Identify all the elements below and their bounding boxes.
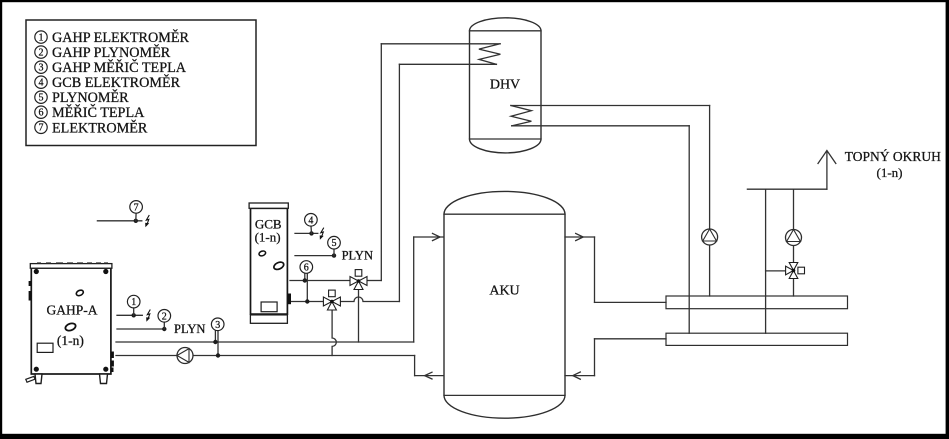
wire DHV lower coil supply <box>511 105 710 107</box>
svg-text:MĚŘIČ TEPLA: MĚŘIČ TEPLA <box>52 104 145 121</box>
meter marker 4 <box>295 214 318 236</box>
svg-text:PLYN: PLYN <box>174 322 205 336</box>
wire GCB supply valve to riser <box>367 280 381 282</box>
valve V2 three-way <box>323 290 340 310</box>
wire GCB return riser <box>398 64 400 301</box>
legend box <box>26 20 256 146</box>
wire heating supply riser <box>793 189 795 296</box>
wire DHV return drop <box>688 126 690 333</box>
svg-text:7: 7 <box>39 123 44 134</box>
legend item 2 GAHP PLYNOMER <box>35 44 171 61</box>
wire header 1 stub <box>595 301 667 303</box>
wire GCB supply horizontal <box>290 280 350 282</box>
svg-text:GAHP ELEKTROMĚR: GAHP ELEKTROMĚR <box>52 29 190 46</box>
svg-text:6: 6 <box>304 263 309 274</box>
header manifold 2 <box>666 333 848 345</box>
wire GCB supply riser <box>380 44 382 281</box>
DHV bottom coil <box>511 106 532 126</box>
valve V3 three-way mixing <box>786 263 805 279</box>
wire DHV lower coil return <box>512 125 690 127</box>
wire valve V2 drop with hop <box>332 310 336 356</box>
wire DHV supply drop <box>709 106 711 297</box>
pump P1 GAHP circuit <box>177 348 193 364</box>
arrow into AKU top-left <box>433 233 441 240</box>
legend item 7 ELEKTROMER <box>35 119 148 136</box>
wire DHV top coil return <box>399 63 496 65</box>
tank AKU body <box>444 191 565 418</box>
svg-text:5: 5 <box>39 93 44 104</box>
wire header 2 stub <box>595 338 667 340</box>
wire AKU bottom-right drop <box>594 339 596 376</box>
svg-text:AKU: AKU <box>489 284 519 299</box>
svg-text:1: 1 <box>131 297 136 308</box>
svg-text:(1-n): (1-n) <box>57 333 84 348</box>
label PLYN gas GAHP <box>174 322 205 336</box>
wire GAHP return horizontal <box>116 355 415 357</box>
meter marker 7 <box>97 201 142 223</box>
pump P2 DHV loading <box>702 229 718 245</box>
wire heating circuit top <box>747 188 827 190</box>
legend item 4 GCB ELEKTROMER <box>35 74 181 91</box>
svg-text:DHV: DHV <box>490 77 520 92</box>
wire AKU outlet bottom-left <box>415 375 444 377</box>
svg-text:3: 3 <box>39 63 44 74</box>
svg-text:GCB ELEKTROMĚR: GCB ELEKTROMĚR <box>52 74 181 91</box>
wire GAHP return drop <box>414 356 416 376</box>
legend item 6 MERIC TEPLA <box>35 104 145 121</box>
legend item 5 PLYNOMER <box>35 89 129 106</box>
pump P3 heating circuit <box>786 230 802 246</box>
wire AKU inlet bottom-right <box>565 375 595 377</box>
svg-text:ELEKTROMĚR: ELEKTROMĚR <box>52 119 148 136</box>
svg-text:PLYN: PLYN <box>342 248 373 262</box>
bolt symbol at marker 4 <box>320 228 324 240</box>
meter marker 5 <box>295 236 340 257</box>
valve V1 three-way <box>350 270 367 290</box>
meter marker 6 <box>300 261 313 304</box>
arrow into AKU bottom-right <box>573 372 581 379</box>
svg-text:(1-n): (1-n) <box>877 165 903 180</box>
arrow heating circuit outgoing <box>818 151 836 190</box>
svg-text:4: 4 <box>308 215 313 226</box>
arrow out of AKU top-right <box>576 233 584 240</box>
meter marker 1 <box>117 295 142 317</box>
wire AKU outlet top-right <box>565 236 595 238</box>
header manifold 1 <box>666 296 848 309</box>
svg-text:PLYNOMĚR: PLYNOMĚR <box>52 89 129 106</box>
wire AKU top-right drop <box>594 237 596 302</box>
svg-text:2: 2 <box>39 48 44 59</box>
svg-text:3: 3 <box>215 320 220 331</box>
wire GAHP supply riser <box>413 237 415 342</box>
arrow out of AKU bottom-left <box>425 372 432 379</box>
wire valve V1 drop <box>358 289 360 343</box>
svg-text:(1-n): (1-n) <box>255 230 281 245</box>
bolt symbol at marker 1 <box>146 310 150 322</box>
svg-text:GAHP PLYNOMĚR: GAHP PLYNOMĚR <box>52 44 171 61</box>
wire GCB return horizontal <box>290 297 399 302</box>
unit GAHP-A <box>26 263 114 384</box>
wire GAHP supply horizontal <box>116 341 414 343</box>
label PLYN gas GCB <box>342 248 373 262</box>
wire heating return riser <box>765 189 767 333</box>
svg-text:GAHP-A: GAHP-A <box>46 302 97 317</box>
unit GCB <box>249 203 291 323</box>
svg-text:6: 6 <box>39 108 44 119</box>
legend item 1 GAHP ELEKTROMER <box>35 29 190 46</box>
DHV top coil <box>479 44 501 65</box>
svg-text:1: 1 <box>39 33 44 44</box>
label TOPNY OKRUH <box>845 149 941 180</box>
wire DHV top coil feed <box>381 43 500 45</box>
bolt symbol at marker 7 <box>145 215 149 227</box>
svg-text:TOPNÝ OKRUH: TOPNÝ OKRUH <box>845 149 941 164</box>
svg-text:2: 2 <box>162 311 167 322</box>
wire valve V3 bypass <box>766 270 786 272</box>
svg-text:4: 4 <box>39 78 44 89</box>
svg-text:7: 7 <box>134 202 139 213</box>
meter marker 2 <box>117 310 171 332</box>
wire AKU inlet top-left <box>414 236 444 238</box>
svg-text:GAHP MĚŘIČ TEPLA: GAHP MĚŘIČ TEPLA <box>52 59 187 76</box>
meter marker 3 <box>211 318 224 358</box>
svg-text:5: 5 <box>332 238 337 249</box>
legend item 3 GAHP MERIC TEPLA <box>35 59 187 76</box>
tank DHV body <box>470 18 542 153</box>
